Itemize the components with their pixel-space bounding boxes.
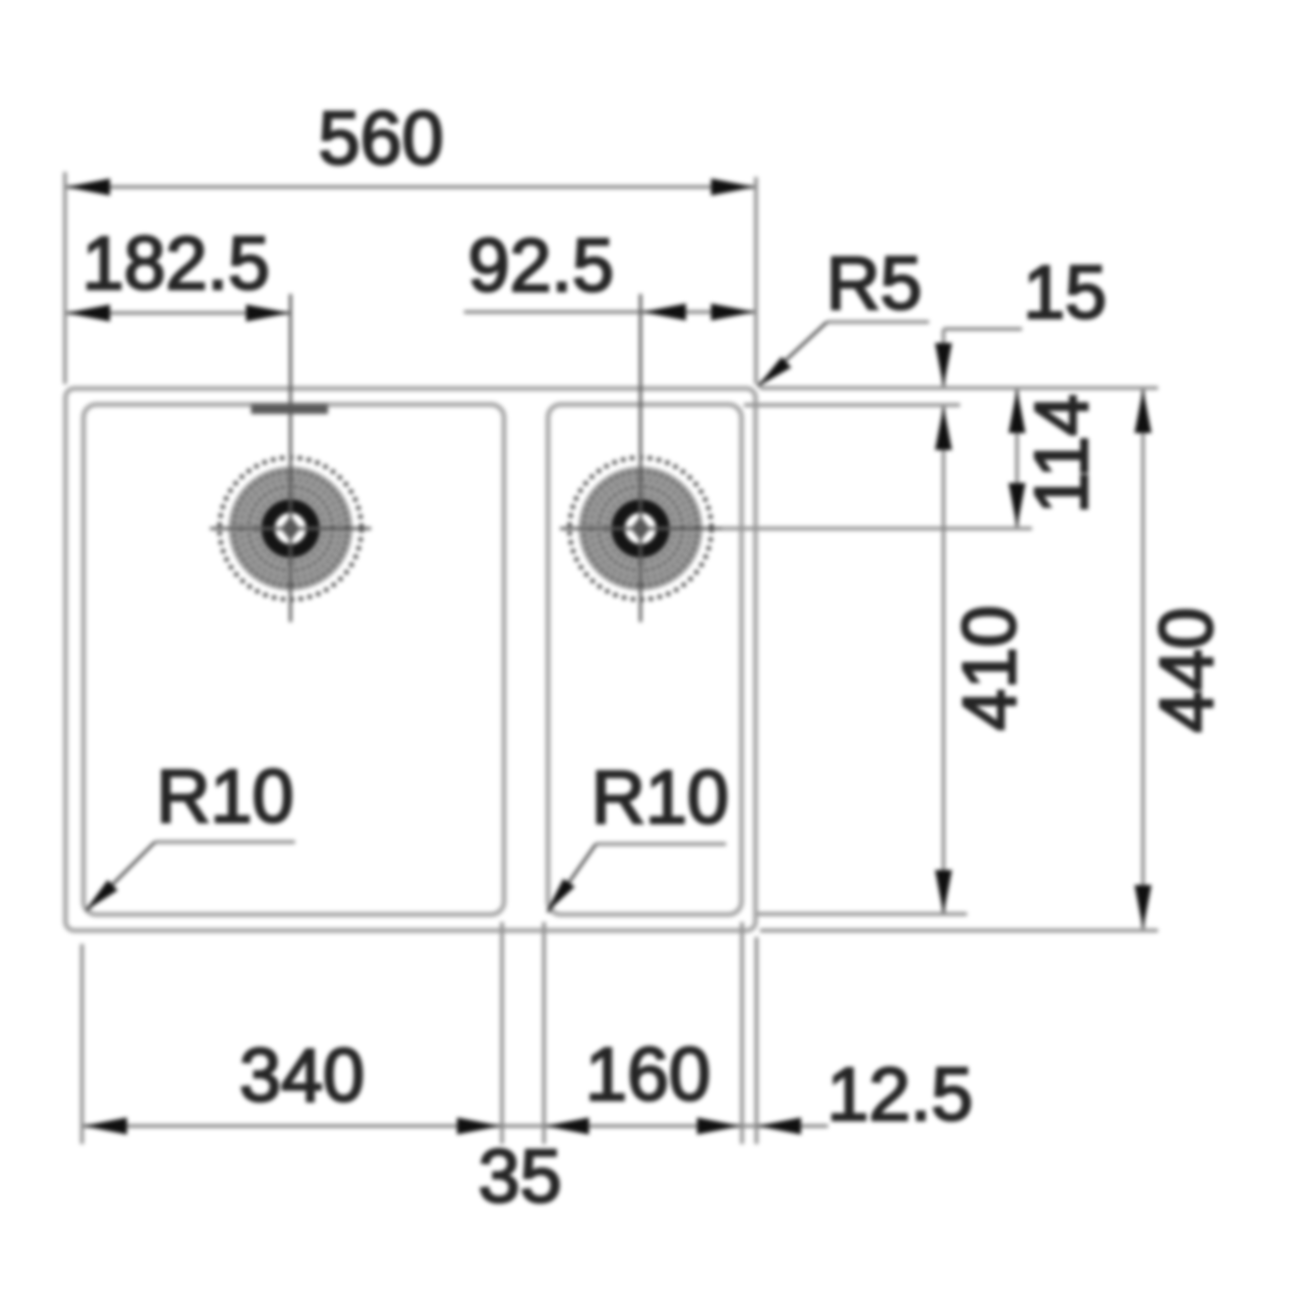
svg-text:560: 560 [318, 96, 443, 180]
svg-text:92.5: 92.5 [468, 223, 614, 307]
svg-text:440: 440 [1144, 607, 1228, 732]
svg-text:35: 35 [478, 1134, 561, 1218]
svg-text:160: 160 [585, 1032, 710, 1116]
svg-text:R5: R5 [826, 241, 922, 325]
svg-text:R10: R10 [591, 755, 729, 839]
svg-text:15: 15 [1023, 250, 1106, 334]
svg-text:340: 340 [239, 1033, 364, 1117]
svg-text:182.5: 182.5 [82, 221, 270, 305]
svg-text:R10: R10 [156, 754, 294, 838]
svg-text:12.5: 12.5 [827, 1052, 973, 1136]
svg-text:114: 114 [1019, 394, 1103, 514]
svg-text:410: 410 [947, 605, 1031, 730]
